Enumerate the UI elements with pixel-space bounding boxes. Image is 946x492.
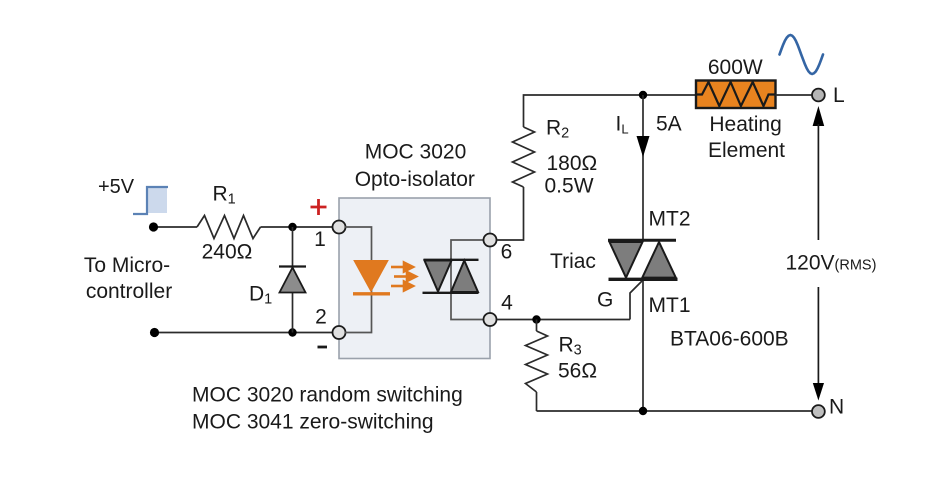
AC sine symbol xyxy=(780,35,824,74)
wire R1 to pin 1 xyxy=(261,226,340,228)
svg-text:56Ω: 56Ω xyxy=(558,360,597,383)
resistor R3 xyxy=(526,320,598,412)
voltage arrow upper xyxy=(813,106,825,240)
svg-text:Opto-isolator: Opto-isolator xyxy=(355,168,475,191)
svg-text:D1: D1 xyxy=(249,283,272,308)
svg-text:0.5W: 0.5W xyxy=(545,175,594,198)
svg-text:1: 1 xyxy=(314,228,326,251)
svg-text:6: 6 xyxy=(501,241,513,264)
junction node R3 top xyxy=(532,315,540,323)
svg-text:MT1: MT1 xyxy=(649,294,691,317)
pin 2 xyxy=(315,306,345,348)
svg-text:Element: Element xyxy=(708,139,785,162)
svg-text:G: G xyxy=(597,289,613,312)
pin 4 xyxy=(484,292,514,327)
wire R2 top xyxy=(524,95,644,127)
resistor R1 xyxy=(197,183,261,264)
pin 6 xyxy=(484,234,513,264)
node input top xyxy=(149,222,158,231)
svg-text:R2: R2 xyxy=(546,117,569,142)
svg-text:180Ω: 180Ω xyxy=(547,152,598,175)
LED (opto) xyxy=(353,261,390,294)
svg-text:Triac: Triac xyxy=(550,250,596,273)
svg-text:MOC 3020 random switching: MOC 3020 random switching xyxy=(192,384,463,407)
wire bottom xyxy=(537,410,813,412)
svg-text:600W: 600W xyxy=(708,56,763,79)
photo-triac internal wire top xyxy=(451,240,484,260)
svg-text:MOC 3020: MOC 3020 xyxy=(365,141,467,164)
wire input bottom xyxy=(154,332,339,334)
svg-text:IL: IL xyxy=(616,113,629,137)
triac Q1 xyxy=(550,208,789,351)
svg-text:L: L xyxy=(833,84,845,107)
wire top to heater xyxy=(643,94,696,96)
svg-text:+5V: +5V xyxy=(98,176,135,198)
light arrows xyxy=(391,263,416,291)
pin 1 xyxy=(311,199,346,251)
label To Micro-controller xyxy=(84,254,172,303)
LED internal wire xyxy=(345,227,372,333)
terminal L xyxy=(812,84,845,107)
wire pin6 to R2 xyxy=(497,187,524,240)
svg-text:240Ω: 240Ω xyxy=(202,241,253,264)
voltage arrow lower xyxy=(813,287,824,401)
svg-text:2: 2 xyxy=(315,306,327,329)
svg-text:BTA06-600B: BTA06-600B xyxy=(670,328,789,351)
wire heater to L xyxy=(776,94,813,96)
gate wire xyxy=(630,281,642,320)
pulse waveform symbol xyxy=(133,187,168,214)
photo-triac xyxy=(423,258,479,294)
junction node bottom xyxy=(639,407,647,415)
svg-text:To Micro-: To Micro- xyxy=(84,254,170,277)
junction node D1 top xyxy=(288,223,296,231)
svg-text:MOC 3041 zero-switching: MOC 3041 zero-switching xyxy=(192,411,434,434)
junction node D1 bottom xyxy=(288,328,296,336)
svg-text:Heating: Heating xyxy=(709,113,781,136)
opto-isolator U1 body xyxy=(339,141,490,359)
svg-text:N: N xyxy=(829,396,844,419)
resistor R2 xyxy=(513,117,598,198)
diode D1 xyxy=(249,227,306,333)
heating element xyxy=(696,56,785,162)
svg-text:R3: R3 xyxy=(559,334,582,359)
svg-text:controller: controller xyxy=(86,280,172,303)
wire input top xyxy=(153,226,197,228)
svg-text:4: 4 xyxy=(501,292,513,315)
junction node top xyxy=(639,91,647,99)
svg-text:120V(RMS): 120V(RMS) xyxy=(786,252,877,275)
wire pin4 to gate xyxy=(497,319,631,321)
svg-text:R1: R1 xyxy=(213,183,236,208)
svg-text:5A: 5A xyxy=(656,113,682,136)
svg-text:MT2: MT2 xyxy=(649,208,691,231)
wire MT1 vertical xyxy=(642,281,644,411)
terminal N xyxy=(812,396,844,419)
photo-triac internal wire bottom xyxy=(451,292,484,320)
wire MT2 vertical xyxy=(642,95,644,239)
current arrow IL xyxy=(616,113,682,158)
node input bottom xyxy=(150,328,159,337)
note MOC switching xyxy=(192,384,463,434)
